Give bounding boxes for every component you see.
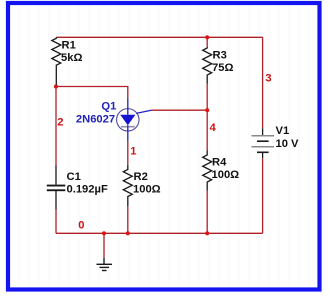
svg-text:R3: R3 (213, 50, 227, 62)
resistor R3 (203, 47, 212, 84)
svg-text:5kΩ: 5kΩ (61, 52, 82, 64)
svg-text:0: 0 (78, 219, 84, 231)
node junction gate rail 4 (205, 108, 209, 112)
svg-text:Q1: Q1 (101, 100, 116, 112)
resistor R1 (52, 37, 61, 84)
resistor R2 (123, 165, 132, 206)
wire Q1 cathode to R2 net 1 (127, 141, 129, 165)
wire bottom rail net 0 (56, 232, 263, 234)
wire V1 bottom to rail net 0 (262, 158, 264, 233)
ground (97, 258, 113, 271)
node junction R2 bottom (126, 231, 130, 235)
svg-text:2: 2 (57, 116, 63, 128)
svg-text:3: 3 (265, 73, 271, 85)
node junction ground (102, 231, 106, 235)
resistor R4 (203, 151, 212, 191)
wire right rail net 3 (262, 37, 264, 128)
wire R4 bottom net 0 (206, 191, 208, 234)
svg-text:75Ω: 75Ω (212, 62, 233, 74)
battery V1 (252, 128, 275, 158)
wire R2 bottom net 0 (127, 206, 129, 233)
wire node2 to Q1 anode (56, 87, 128, 99)
svg-text:C1: C1 (67, 171, 81, 183)
svg-text:V1: V1 (276, 125, 290, 137)
svg-text:R4: R4 (212, 157, 227, 169)
svg-text:100Ω: 100Ω (212, 169, 240, 181)
node junction R1/C1 (54, 84, 58, 88)
wire left rail lower net 0 (55, 210, 57, 234)
node junction R4 bottom (205, 231, 209, 235)
svg-text:10 V: 10 V (276, 138, 300, 150)
svg-text:4: 4 (210, 122, 217, 134)
svg-text:2N6027: 2N6027 (76, 113, 115, 125)
wire gate to mid rail net 4 (152, 109, 207, 111)
wire R3 bottom to R4 top net 4 (206, 84, 208, 151)
node junction top rail R3 (205, 35, 209, 39)
svg-text:R1: R1 (62, 40, 76, 52)
svg-text:100Ω: 100Ω (133, 183, 161, 195)
capacitor C1 (55, 166, 57, 210)
svg-text:0.192µF: 0.192µF (67, 183, 108, 195)
transistor Q1 (PUT 2N6027) (117, 98, 152, 141)
wire ground stub (103, 233, 105, 258)
wire R3 top stub (206, 37, 208, 47)
svg-text:R2: R2 (134, 171, 148, 183)
svg-text:1: 1 (130, 145, 136, 157)
wire left rail upper net 2 (55, 87, 57, 166)
wire top rail net 3 (56, 36, 262, 38)
